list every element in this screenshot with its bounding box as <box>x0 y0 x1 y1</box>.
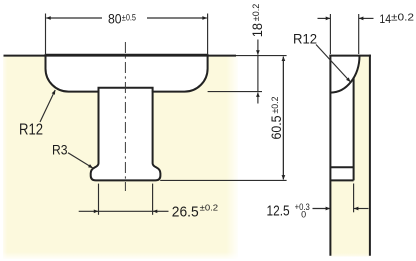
side slot bottom line <box>330 179 353 181</box>
side top edge <box>329 55 371 57</box>
dimension 14±0.2 extension left <box>329 14 331 54</box>
side strip bottom soft edge <box>325 253 380 260</box>
leader R12 side <box>316 45 350 82</box>
svg-text:R12: R12 <box>19 121 43 138</box>
leader R3 <box>68 153 93 168</box>
svg-text:0: 0 <box>301 209 306 219</box>
svg-text:±0.2: ±0.2 <box>270 97 281 114</box>
front cutout white shape <box>46 55 208 181</box>
svg-text:±0.5: ±0.5 <box>122 12 136 22</box>
panel left soft edge <box>0 54 8 260</box>
svg-text:R3: R3 <box>52 142 68 157</box>
dimension 18±0.2 text <box>249 4 265 38</box>
dimension 12.5 line <box>313 208 369 210</box>
slot inner step edge <box>99 88 153 92</box>
panel face (front view material) <box>3 56 238 259</box>
svg-text:26.5: 26.5 <box>172 203 199 220</box>
svg-text:±0.2: ±0.2 <box>251 4 262 22</box>
centerline <box>124 42 126 191</box>
dimension 26.5±0.2 line <box>79 210 169 212</box>
svg-text:60.5: 60.5 <box>268 115 284 139</box>
svg-text:12.5: 12.5 <box>267 203 290 219</box>
panel top edge <box>4 55 237 57</box>
side view material strip <box>331 56 370 257</box>
dimension 14±0.2 line <box>318 17 374 19</box>
panel bottom soft edge <box>0 252 246 261</box>
dimension 26.5±0.2 extension right <box>152 184 154 215</box>
side wall extension line <box>353 184 355 213</box>
dimension 60.5±0.2 line <box>282 57 284 180</box>
side R12 arc <box>331 56 360 93</box>
svg-text:±0.2: ±0.2 <box>391 12 414 23</box>
top edge extension line <box>236 55 287 57</box>
side slot depth line <box>330 166 353 168</box>
leader R12 front <box>40 90 55 122</box>
side slot inner wall <box>353 78 355 181</box>
recess floor extension line <box>208 91 262 93</box>
svg-text:80: 80 <box>108 10 122 26</box>
side back line <box>369 55 371 256</box>
slot bottom extension line <box>160 179 286 181</box>
panel right soft edge <box>226 54 240 260</box>
dimension 80±0.5 line <box>46 17 207 19</box>
dimension 60.5±0.2 text <box>268 97 284 140</box>
side face line <box>329 55 331 256</box>
dimension 80±0.5 extension right <box>207 14 209 56</box>
svg-text:18: 18 <box>249 23 265 37</box>
svg-text:R12: R12 <box>293 32 317 47</box>
dimension 80±0.5 extension left <box>45 14 47 56</box>
dimension 26.5±0.2 extension left <box>98 184 100 215</box>
dimension 14±0.2 extension right <box>358 14 360 54</box>
svg-text:14: 14 <box>379 12 391 26</box>
svg-text:±0.2: ±0.2 <box>200 203 219 213</box>
dimension 18±0.2 line <box>257 40 259 104</box>
